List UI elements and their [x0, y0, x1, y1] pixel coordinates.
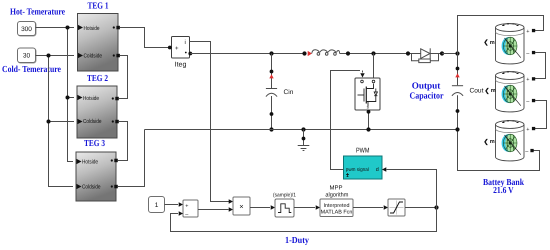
junction duty node [434, 205, 438, 209]
wire sample hold to MPP function [294, 207, 315, 209]
port dot Iteg output [188, 52, 192, 56]
port dot Cout bottom [456, 109, 460, 113]
wire B2 minus to B3 plus [535, 101, 547, 129]
port dot Cin top [270, 70, 274, 74]
red arrow Cin [269, 74, 273, 78]
wire cold bus vertical [49, 56, 74, 187]
battery cell B2 [496, 72, 525, 112]
wire Cout branch upper [457, 54, 459, 86]
wire Cout branch lower down to battery return [458, 95, 540, 170]
red current direction arrow at inductor [308, 51, 312, 56]
arrowhead into sum plus [179, 202, 183, 206]
wire duty feedback loop to sum minus [171, 208, 437, 232]
wire Cin branch lower [271, 96, 273, 130]
wire 30 output to cold bus [36, 55, 75, 57]
TEG 3 subsystem block [76, 138, 118, 201]
TEG 2 subsystem block [77, 73, 119, 138]
junction hot bus at TEG2 [66, 96, 70, 100]
wire B1 minus to B2 plus [535, 53, 546, 79]
constant block 1 [149, 197, 165, 213]
junction MOSFET drain tap [371, 51, 375, 55]
PWM generator block [344, 148, 383, 179]
wire PWM output to MOSFET gate [331, 71, 361, 170]
svg-text:1-Duty: 1-Duty [285, 235, 309, 245]
battery cell B3 [496, 121, 525, 161]
svg-text:+: + [175, 46, 179, 52]
junction Cin tap [269, 51, 273, 55]
wire MPP function to saturation [353, 207, 383, 209]
junction ground tap on rail [301, 127, 305, 131]
sample and hold block [273, 192, 296, 217]
port dot inductor right terminal [346, 51, 350, 55]
svg-text:Capacitor: Capacitor [410, 91, 444, 101]
svg-text:Hotside: Hotside [84, 25, 100, 32]
capacitor Cin [266, 89, 277, 97]
constant block 300 (hot temperature source) [18, 22, 37, 37]
svg-text:Cin: Cin [284, 89, 294, 96]
svg-text:+: + [185, 204, 188, 210]
svg-text:PWM: PWM [356, 148, 370, 155]
battery cell B1 [496, 24, 525, 64]
junction Cout at negative rail [455, 127, 459, 131]
wire diode to output node [442, 53, 458, 55]
port dot diode cathode [440, 51, 444, 55]
arrowhead into MPP function [316, 205, 320, 209]
svg-text:+: + [526, 127, 529, 133]
arrowhead into PWM d input [382, 167, 386, 171]
svg-text:d: d [376, 167, 379, 173]
svg-text:algorithm: algorithm [325, 192, 348, 199]
arrowhead into MOSFET gate [360, 73, 364, 77]
svg-text:Interpreted: Interpreted [323, 203, 349, 209]
junction output node (diode cathode / Cout / top rail) [455, 51, 459, 55]
svg-text:MATLAB Fcn: MATLAB Fcn [321, 209, 353, 215]
wire top positive rail to battery bank [458, 16, 544, 54]
svg-text:m: m [491, 88, 496, 94]
wire inductor to diode [340, 53, 408, 55]
wire saturation output to duty node [405, 207, 436, 209]
wire TEG1 plus to Iteg sensor input [120, 28, 169, 48]
arrowhead into sum minus [179, 211, 183, 215]
svg-text:30: 30 [23, 53, 31, 60]
ground symbol [298, 130, 310, 151]
junction hot bus at TEG1 [66, 26, 70, 30]
product block [233, 197, 250, 215]
svg-text:Iteg: Iteg [175, 62, 187, 69]
svg-text:+: + [526, 77, 529, 83]
wire Cin branch upper [271, 54, 273, 89]
red arrow Cout [455, 73, 459, 77]
port dot diode anode [406, 51, 410, 55]
current sensor Iteg [172, 37, 190, 69]
wire duty node up to PWM d input [387, 170, 437, 208]
sum block (1-D) [183, 200, 198, 218]
svg-text:MPP: MPP [329, 185, 342, 192]
svg-text:pwm signal: pwm signal [346, 167, 369, 173]
svg-text:❮: ❮ [485, 87, 490, 94]
svg-text:21.6 V: 21.6 V [493, 185, 514, 195]
TEG 1 subsystem block [78, 1, 120, 72]
svg-text:m: m [490, 40, 495, 46]
svg-text:Hotside: Hotside [83, 95, 99, 102]
wire TEG2 minus to TEG3 plus (series link) [118, 122, 128, 161]
wire TEG3 minus return to negative rail [118, 130, 145, 187]
constant block 30 (cold temperature source) [18, 48, 37, 63]
wire TEG1 minus to TEG2 plus (series link) [119, 56, 128, 99]
svg-text:Hotside: Hotside [82, 158, 98, 165]
port dot MOSFET source [367, 110, 371, 114]
svg-text:Coldside: Coldside [82, 183, 101, 190]
wire constant 1 to sum [165, 204, 179, 206]
wire hot bus vertical [68, 28, 74, 162]
diode D with snubber [408, 48, 442, 62]
svg-text:Output: Output [412, 81, 442, 91]
capacitor Cout [452, 86, 463, 96]
saturation block [388, 199, 405, 216]
inductor L [312, 50, 340, 56]
wire MOSFET drain from main line [373, 54, 375, 80]
wire Iteg i measurement signal down to product [190, 42, 230, 202]
port dot Cin bottom [270, 112, 274, 116]
wire product to sample hold [250, 207, 270, 209]
svg-text:+: + [526, 29, 529, 35]
port dot Iteg input [168, 46, 172, 50]
port dot inductor left terminal [302, 51, 306, 55]
junction Cin at negative rail [269, 127, 273, 131]
junction cold bus at TEG2 [47, 120, 51, 124]
wire hot bus branch to TEG2 [68, 97, 75, 99]
wire cold bus branch to TEG2 [49, 121, 75, 123]
svg-text:Cold- Temerature: Cold- Temerature [2, 64, 61, 74]
arrowhead into saturation [384, 205, 388, 209]
svg-text:(sample)/1: (sample)/1 [273, 192, 296, 198]
svg-text:TEG 3: TEG 3 [84, 138, 105, 148]
arrowhead into product upper input (Iteg signal) [229, 199, 233, 203]
svg-text:Cout: Cout [470, 87, 484, 94]
svg-text:Coldside: Coldside [83, 118, 102, 125]
svg-text:×: × [239, 202, 243, 211]
junction cold bus at TEG1 [47, 54, 51, 58]
arrowhead into sample hold [271, 205, 275, 209]
port dot Cout top [456, 67, 460, 71]
svg-text:TEG 1: TEG 1 [88, 1, 109, 11]
wire 300 output to hot bus [36, 27, 75, 29]
svg-text:i: i [185, 39, 186, 46]
svg-text:300: 300 [21, 26, 32, 33]
arrowhead into product lower input [229, 207, 233, 211]
MOSFET switch block [355, 78, 380, 110]
svg-text:m: m [490, 139, 495, 145]
wire main positive line Iteg to inductor [190, 53, 304, 55]
svg-text:❮: ❮ [484, 138, 489, 145]
svg-text:Hot- Temerature: Hot- Temerature [10, 7, 65, 17]
svg-text:1: 1 [155, 202, 159, 209]
MPP algorithm interpreted MATLAB function block [320, 185, 353, 217]
junction MOSFET source at rail [366, 127, 370, 131]
wire sum output to product [198, 209, 229, 211]
svg-text:❮: ❮ [484, 39, 489, 46]
wire gate vertical stub [362, 71, 364, 73]
svg-text:Coldside: Coldside [84, 52, 103, 59]
wire negative rail [145, 129, 458, 131]
svg-text:TEG 2: TEG 2 [87, 73, 108, 83]
wire MOSFET source to rail [368, 110, 370, 130]
